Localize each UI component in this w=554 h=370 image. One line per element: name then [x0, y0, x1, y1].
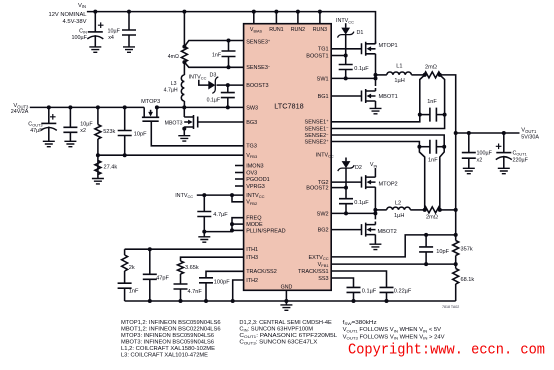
svg-text:TRACK/SS1: TRACK/SS1: [298, 269, 329, 275]
resistor 4m ohm sense: [183, 12, 185, 47]
svg-text:2mΩ: 2mΩ: [426, 214, 438, 220]
resistor 357k: [453, 241, 459, 256]
svg-text:MBOT2: MBOT2: [378, 229, 397, 235]
svg-text:1nF: 1nF: [129, 289, 139, 295]
wire SS3: [331, 278, 353, 287]
svg-text:BG1: BG1: [318, 94, 329, 100]
capacitor 1nF sense3: [228, 41, 230, 52]
svg-text:0.1µF: 0.1µF: [354, 200, 369, 206]
svg-text:BOOST1: BOOST1: [306, 53, 328, 59]
svg-text:MODE: MODE: [246, 222, 263, 228]
wire GND pin: [285, 290, 287, 301]
svg-text:L3: COILCRAFT XAL1010-472ME: L3: COILCRAFT XAL1010-472ME: [121, 352, 209, 358]
ground at 27.4k: [92, 179, 104, 184]
svg-text:1µH: 1µH: [394, 78, 404, 84]
resistor 2m ohm sense2: [424, 207, 440, 213]
svg-text:1µH: 1µH: [394, 213, 404, 219]
wire TRACK/SS1: [331, 271, 386, 287]
svg-text:0.1µF: 0.1µF: [354, 66, 369, 72]
svg-text:68.1k: 68.1k: [461, 277, 475, 283]
capacitor COUT1 220uF: [503, 133, 505, 153]
svg-text:BOOST3: BOOST3: [246, 83, 268, 89]
pin RUN1 wire: [275, 12, 277, 24]
svg-text:RUN2: RUN2: [291, 27, 305, 33]
svg-text:MTOP2: MTOP2: [379, 182, 398, 188]
resistor 523k: [97, 107, 99, 124]
svg-text:VPRG3: VPRG3: [246, 184, 265, 190]
svg-text:x2: x2: [80, 128, 86, 134]
resistor 68.1k: [453, 269, 459, 285]
wire sense2 kelvin right: [440, 147, 444, 210]
ground at MBOT2: [369, 244, 381, 249]
svg-text:47µF: 47µF: [30, 128, 43, 134]
capacitor 0.1uF boost2: [345, 188, 347, 199]
svg-text:VIN: VIN: [370, 162, 378, 168]
transistor MBOT2: [362, 223, 376, 237]
svg-text:523k: 523k: [103, 129, 115, 135]
svg-text:Copyright:www. eccn. com: Copyright:www. eccn. com: [348, 341, 545, 359]
wire D1 to BOOST1: [345, 35, 347, 56]
svg-text:D2: D2: [355, 165, 362, 171]
pin RUN3 wire: [319, 12, 321, 24]
svg-text:D3: D3: [210, 72, 217, 78]
svg-text:1nF: 1nF: [428, 157, 438, 163]
wire SENSE1+: [331, 115, 420, 122]
svg-text:10µF: 10µF: [80, 122, 93, 128]
svg-text:L3: L3: [171, 81, 177, 87]
transistor MBOT3: [183, 107, 185, 117]
capacitor 10pF fb3: [124, 107, 126, 130]
transistor MBOT1: [362, 89, 376, 103]
wire VIN top rail: [87, 12, 376, 44]
inductor L2 1uH: [375, 209, 386, 211]
wire sense1 kelvin right: [440, 75, 445, 115]
inductor L1 1uH: [376, 74, 387, 76]
svg-text:VFB3: VFB3: [246, 153, 258, 159]
node VOUT1 rail: [456, 132, 520, 134]
svg-text:SW1: SW1: [317, 76, 329, 82]
capacitor 10uF x2 out3: [69, 107, 71, 127]
ground at 4.7uF: [203, 232, 205, 237]
ground at 100uF x2: [463, 168, 475, 173]
svg-text:D1: D1: [357, 30, 364, 36]
svg-text:L2: L2: [395, 200, 401, 206]
wire ITH2 to ground: [233, 280, 244, 301]
svg-text:0.1µF: 0.1µF: [362, 289, 377, 295]
svg-text:2mΩ: 2mΩ: [425, 64, 437, 70]
svg-text:MTOP3: INFINEON BSC059N04LS6: MTOP3: INFINEON BSC059N04LS6: [121, 333, 214, 339]
svg-text:MTOP3: MTOP3: [141, 99, 160, 105]
IC U1 LTC7818 body: [244, 24, 332, 291]
svg-text:RUN1: RUN1: [269, 27, 283, 33]
pin RUN2 wire: [297, 12, 299, 24]
wire VFB3: [98, 154, 244, 156]
resistor 2k: [124, 249, 126, 255]
transistor MTOP1: [362, 42, 376, 56]
svg-text:4.7µH: 4.7µH: [164, 87, 178, 93]
svg-text:BG2: BG2: [318, 228, 329, 234]
svg-text:BOOST2: BOOST2: [306, 186, 328, 192]
svg-text:D1,2,3: CENTRAL SEMI CMDSH-4E: D1,2,3: CENTRAL SEMI CMDSH-4E: [239, 320, 332, 326]
ground at COUT3: [43, 141, 55, 146]
wire VFB2 tie to INTVCC: [232, 195, 244, 202]
svg-text:357k: 357k: [461, 246, 473, 252]
capacitor 10uF x4: [128, 12, 130, 30]
svg-text:CIN: SUNCON 63HVPF100M: CIN: SUNCON 63HVPF100M: [239, 326, 313, 332]
ground at MBOT3: [178, 136, 190, 141]
wire SW1: [331, 77, 375, 79]
wire BOOST3: [228, 84, 244, 86]
wire TG3 to MTOP3 gate: [151, 121, 243, 146]
pin stub OV3: [235, 172, 244, 174]
svg-text:100pF: 100pF: [214, 280, 230, 286]
pin VBIAS wire: [253, 12, 255, 24]
svg-text:SENSE3−: SENSE3−: [246, 64, 271, 72]
wire EXTVCC to VOUT1: [331, 235, 456, 257]
svg-text:1nF: 1nF: [427, 99, 437, 105]
wire ITH3: [181, 257, 244, 261]
wire TG1: [331, 48, 361, 50]
wire 2m ohm 2 to rail: [441, 209, 456, 211]
wire 2m ohm to VOUT1 rail: [441, 75, 456, 133]
resistor 2m ohm sense1: [424, 72, 440, 78]
svg-text:COUT1: COUT1: [513, 151, 527, 157]
wire ITH1: [125, 248, 244, 250]
capacitor 1nF sense1: [420, 114, 430, 116]
capacitor 100pF: [199, 278, 213, 283]
diode D3 schottky: [199, 80, 209, 85]
svg-text:4mΩ: 4mΩ: [168, 54, 179, 60]
svg-text:L1,2: COILCRAFT XAL1580-102ME: L1,2: COILCRAFT XAL1580-102ME: [121, 346, 216, 352]
wire SW2: [331, 212, 375, 214]
svg-text:TG3: TG3: [246, 144, 257, 150]
wire VOUT3 rail: [30, 106, 144, 108]
svg-text:MTOP1: MTOP1: [379, 43, 398, 49]
ground at GND pin: [285, 301, 287, 305]
capacitor 1nF sense2: [419, 146, 430, 148]
svg-text:INTVCC: INTVCC: [246, 193, 264, 199]
pin stub IMON3: [235, 165, 244, 167]
svg-text:SENSE3+: SENSE3+: [246, 38, 271, 46]
ground at COUT1: [498, 168, 510, 173]
svg-text:OV3: OV3: [246, 170, 257, 176]
svg-text:INTVCC: INTVCC: [189, 74, 207, 80]
svg-text:BG3: BG3: [246, 120, 257, 126]
svg-text:ITH1: ITH1: [246, 247, 258, 253]
svg-text:MBOT3: INFINEON BSC059N04LS6: MBOT3: INFINEON BSC059N04LS6: [121, 339, 214, 345]
resistor 3.65k: [178, 261, 184, 274]
svg-text:LTC7818: LTC7818: [274, 102, 304, 111]
svg-text:5V/30A: 5V/30A: [521, 135, 539, 141]
svg-text:IMON3: IMON3: [246, 163, 263, 169]
capacitor 0.1uF boost1: [345, 56, 347, 65]
svg-text:SW3: SW3: [246, 105, 258, 111]
capacitor 0.22uF ss1: [380, 287, 394, 292]
svg-text:4.5V-38V: 4.5V-38V: [63, 19, 88, 25]
wire SENSE3- to 4m ohm bottom: [184, 62, 243, 67]
capacitor 1nF ith1: [124, 271, 126, 283]
svg-text:24V/2A: 24V/2A: [11, 109, 29, 115]
svg-text:EXTVCC: EXTVCC: [308, 255, 328, 261]
svg-text:INTVCC: INTVCC: [316, 153, 334, 159]
capacitor 47pF: [148, 247, 152, 251]
wire SENSE2-: [331, 135, 444, 147]
svg-text:MBOT3: MBOT3: [165, 121, 183, 127]
svg-text:10pF: 10pF: [436, 249, 449, 255]
svg-text:VIN: VIN: [78, 3, 86, 9]
wire BOOST1: [331, 55, 346, 57]
svg-text:COUT3: COUT3: [28, 122, 42, 128]
svg-text:INTVCC: INTVCC: [175, 193, 193, 199]
pin stub PGOOD1: [235, 178, 244, 180]
wire sense1 kelvin left: [420, 75, 425, 115]
svg-text:RUN3: RUN3: [313, 27, 327, 33]
svg-text:100µF: 100µF: [477, 151, 493, 157]
svg-text:x4: x4: [108, 35, 114, 41]
transistor MTOP2: [362, 175, 376, 189]
capacitor 0.1uF boost3: [227, 85, 229, 93]
svg-text:TG1: TG1: [318, 47, 329, 53]
svg-text:27.4k: 27.4k: [104, 165, 118, 171]
svg-text:PLLIN/SPREAD: PLLIN/SPREAD: [246, 228, 285, 234]
svg-text:4.7nF: 4.7nF: [188, 289, 203, 295]
wire SENSE2+: [331, 142, 419, 147]
wire TRACK/SS2: [206, 271, 244, 278]
svg-text:12V NOMINAL: 12V NOMINAL: [49, 12, 87, 18]
svg-text:CIN: CIN: [79, 29, 87, 35]
svg-text:VOUT1 FOLLOWS VIN WHEN VIN < 5: VOUT1 FOLLOWS VIN WHEN VIN < 5V: [343, 327, 442, 333]
diode D1 schottky: [345, 23, 347, 28]
capacitor 4.7uF INTVCC: [203, 195, 205, 211]
svg-text:MBOT1,2: INFINEON BSC022N04LS6: MBOT1,2: INFINEON BSC022N04LS6: [121, 326, 221, 332]
wire BG1: [331, 95, 361, 97]
wire SENSE3+ to 4m ohm top: [184, 41, 243, 47]
wire TG2: [331, 181, 361, 183]
wire SW3 node: [157, 106, 244, 108]
pin stub VPRG3: [235, 185, 244, 187]
wire BG3: [198, 121, 244, 123]
svg-text:VFB1: VFB1: [318, 262, 330, 268]
svg-text:7818 TA02: 7818 TA02: [442, 305, 459, 309]
transistor MTOP3: [142, 107, 159, 121]
svg-text:3.65k: 3.65k: [185, 265, 199, 271]
capacitor 100uF x2 out1: [468, 133, 470, 153]
svg-text:2k: 2k: [129, 265, 135, 271]
wire BOOST2: [331, 187, 346, 189]
ground at 10uF x4: [123, 47, 135, 52]
svg-text:SS3: SS3: [318, 276, 328, 282]
wire sense2 kelvin left: [419, 147, 424, 210]
svg-text:MTOP1,2: INFINEON BSC059N04LS6: MTOP1,2: INFINEON BSC059N04LS6: [121, 320, 221, 326]
svg-text:SW2: SW2: [317, 211, 329, 217]
svg-text:VOUT1: VOUT1: [521, 128, 537, 134]
inductor L3 4.7uH: [183, 62, 185, 75]
svg-text:TRACK/SS2: TRACK/SS2: [246, 269, 277, 275]
wire VFB1: [331, 263, 456, 265]
wire INTVCC pin: [197, 194, 244, 196]
diode D2 schottky: [345, 158, 347, 162]
wire FREQ MODE PLLIN tie: [204, 218, 243, 232]
svg-text:47pF: 47pF: [156, 276, 169, 282]
capacitor 10pF fb1: [424, 233, 428, 237]
svg-text:MBOT1: MBOT1: [379, 94, 398, 100]
ground at CIN: [89, 47, 101, 52]
svg-text:1nF: 1nF: [212, 52, 221, 58]
svg-text:x2: x2: [477, 158, 483, 164]
capacitor CIN 100uF: [94, 12, 96, 32]
svg-text:FREQ: FREQ: [246, 216, 262, 222]
svg-text:ITH3: ITH3: [246, 255, 258, 261]
resistor 27.4k: [96, 153, 100, 157]
svg-text:4.7µF: 4.7µF: [213, 212, 228, 218]
svg-text:ITH2: ITH2: [246, 278, 258, 284]
svg-text:100µF: 100µF: [71, 35, 87, 41]
svg-text:PGOOD1: PGOOD1: [246, 177, 270, 183]
svg-text:VFB2: VFB2: [246, 200, 258, 206]
svg-text:10µF: 10µF: [108, 29, 121, 35]
svg-text:L1: L1: [396, 64, 402, 70]
wire SENSE1-: [331, 115, 444, 129]
svg-text:GND: GND: [281, 285, 293, 291]
wire D2 to BOOST2: [345, 168, 347, 188]
wire VOUT1 sense rail vertical: [455, 133, 457, 241]
capacitor COUT3 47uF: [48, 107, 50, 123]
svg-text:10pF: 10pF: [134, 131, 147, 137]
svg-text:SENSE2+: SENSE2+: [305, 138, 330, 146]
svg-text:0.22µF: 0.22µF: [394, 289, 412, 295]
ground at MBOT1: [370, 108, 382, 113]
capacitor 4.7nF: [180, 274, 182, 284]
wire ground bus bottom: [125, 300, 456, 302]
wire BG2: [331, 229, 361, 231]
capacitor 0.1uF ss3: [347, 287, 361, 292]
svg-text:0.1µF: 0.1µF: [207, 98, 220, 104]
svg-text:220µF: 220µF: [513, 158, 529, 164]
ground at 10uF x2: [64, 141, 76, 146]
